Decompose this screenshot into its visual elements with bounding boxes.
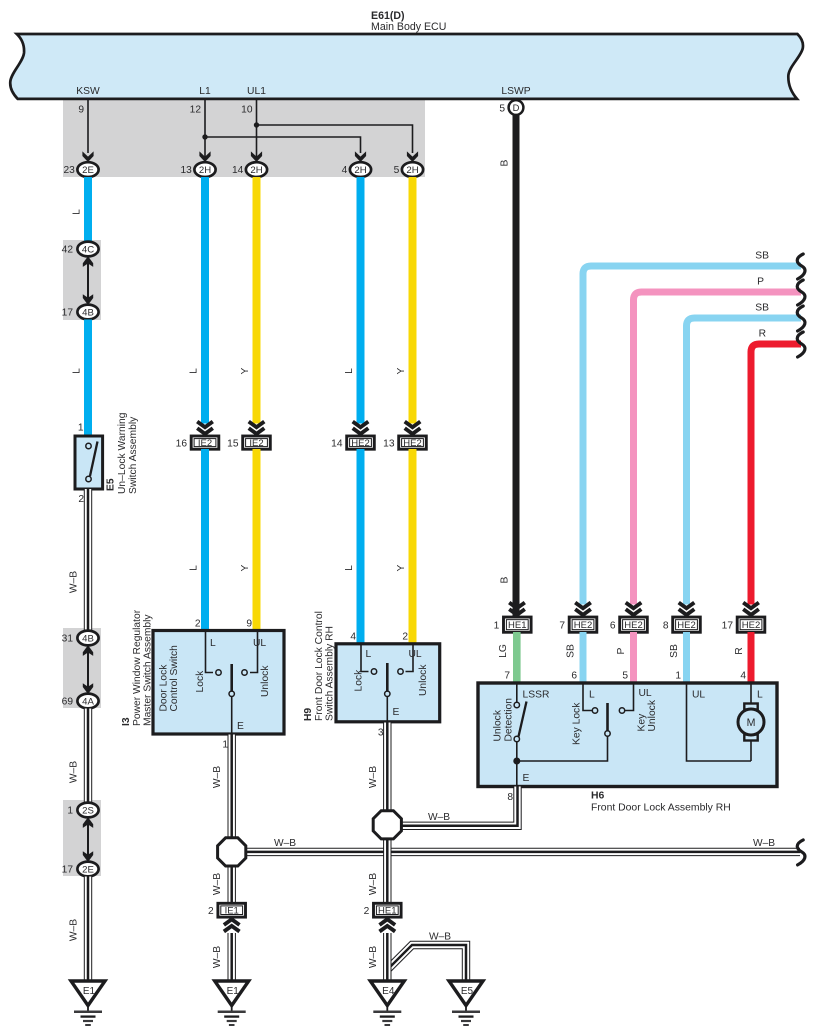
wire R red to 17 HE2 bbox=[734, 329, 801, 682]
svg-text:4B: 4B bbox=[82, 633, 94, 644]
double arrow 4B to 4A bbox=[83, 645, 93, 694]
svg-text:12: 12 bbox=[190, 105, 202, 116]
svg-text:6: 6 bbox=[571, 671, 577, 682]
junction octagon J2 bbox=[373, 811, 401, 839]
junction octagon J1 bbox=[218, 838, 246, 866]
svg-text:B: B bbox=[500, 159, 511, 166]
H9 Front Door Lock Control Switch Assembly RH box bbox=[303, 611, 440, 722]
svg-text:2: 2 bbox=[402, 632, 408, 643]
svg-text:4: 4 bbox=[350, 632, 356, 643]
svg-text:W–B: W–B bbox=[212, 766, 223, 788]
connector 14 2H bbox=[232, 162, 267, 177]
svg-text:IE1: IE1 bbox=[225, 906, 239, 917]
wire Y yellow 14 2H to 15 IE2 bbox=[240, 177, 257, 424]
connector 15 IE2 bbox=[227, 422, 270, 450]
svg-text:HE2: HE2 bbox=[742, 620, 760, 631]
svg-text:4: 4 bbox=[740, 671, 746, 682]
svg-text:UL: UL bbox=[409, 649, 422, 660]
svg-text:E: E bbox=[393, 707, 400, 718]
svg-text:2: 2 bbox=[195, 619, 201, 630]
connector 17 4B bbox=[62, 305, 99, 320]
wire L blue 4 2H to 14 HE2 bbox=[344, 177, 361, 424]
svg-text:10: 10 bbox=[241, 105, 253, 116]
svg-text:16: 16 bbox=[176, 438, 188, 449]
svg-text:L: L bbox=[344, 368, 355, 374]
svg-text:4C: 4C bbox=[82, 244, 94, 255]
svg-text:Lock: Lock bbox=[195, 670, 206, 693]
svg-text:13: 13 bbox=[180, 165, 192, 176]
svg-text:L: L bbox=[72, 368, 83, 374]
svg-text:E: E bbox=[237, 721, 244, 732]
gray harness shade region top bbox=[63, 97, 425, 177]
break symbol P bbox=[797, 280, 805, 305]
svg-text:W–B: W–B bbox=[368, 873, 379, 895]
svg-text:17: 17 bbox=[62, 308, 74, 319]
wire SB skyblue to 7 HE2 bbox=[566, 251, 802, 682]
wire SB HE2 to H6 pin 6 bbox=[580, 632, 587, 684]
svg-text:IE2: IE2 bbox=[198, 438, 212, 449]
svg-text:P: P bbox=[757, 277, 764, 288]
svg-text:L: L bbox=[189, 565, 200, 571]
svg-text:W–B: W–B bbox=[69, 571, 80, 593]
connector 16 IE2 bbox=[176, 422, 219, 450]
svg-text:1: 1 bbox=[78, 423, 84, 434]
wire branch UL1 to 5 2H bbox=[254, 122, 418, 162]
svg-text:Switch Assembly: Switch Assembly bbox=[128, 416, 139, 494]
svg-text:Unlock: Unlock bbox=[493, 709, 504, 741]
svg-text:UL: UL bbox=[639, 688, 652, 699]
svg-text:L: L bbox=[210, 638, 216, 649]
svg-text:2H: 2H bbox=[250, 165, 262, 176]
svg-text:4: 4 bbox=[342, 165, 348, 176]
svg-text:Key Lock: Key Lock bbox=[572, 702, 583, 745]
svg-text:M: M bbox=[747, 717, 756, 729]
svg-text:R: R bbox=[759, 329, 766, 340]
double arrow 4C to 4B bbox=[83, 256, 93, 305]
I3 Power Window Regulator Master Switch Assembly box bbox=[121, 609, 284, 734]
wire L blue 16 IE2 to I3 pin 2 bbox=[189, 449, 206, 632]
svg-text:Main Body ECU: Main Body ECU bbox=[371, 21, 446, 33]
svg-text:Switch Assembly RH: Switch Assembly RH bbox=[325, 626, 336, 721]
svg-text:W–B: W–B bbox=[274, 838, 296, 849]
double arrow 2S to 2E bbox=[83, 817, 93, 862]
svg-text:W–B: W–B bbox=[69, 919, 80, 941]
svg-text:1: 1 bbox=[494, 620, 500, 631]
svg-text:4B: 4B bbox=[82, 307, 94, 318]
svg-text:LSWP: LSWP bbox=[501, 86, 530, 97]
connector 13 2H bbox=[180, 162, 215, 177]
svg-text:Y: Y bbox=[240, 367, 251, 374]
svg-text:UL1: UL1 bbox=[247, 86, 266, 97]
svg-text:1: 1 bbox=[675, 671, 681, 682]
svg-text:Master Switch Assembly: Master Switch Assembly bbox=[143, 614, 154, 726]
wire UL1 pin 10 stub bbox=[241, 99, 262, 162]
wire KSW pin 9 stub bbox=[78, 99, 93, 162]
svg-text:L: L bbox=[189, 368, 200, 374]
connector 2 IE1 bbox=[208, 903, 245, 931]
svg-text:23: 23 bbox=[63, 165, 75, 176]
svg-text:Un–Lock Warning: Un–Lock Warning bbox=[117, 412, 128, 494]
svg-text:LG: LG bbox=[498, 644, 509, 658]
break symbol R bbox=[797, 332, 805, 357]
wire W-B I3 E to IE1 bbox=[212, 735, 232, 904]
connector 42 4C bbox=[62, 242, 99, 257]
connector 5 2H bbox=[394, 162, 423, 177]
svg-text:P: P bbox=[616, 647, 627, 654]
svg-text:E5: E5 bbox=[461, 986, 474, 997]
wire P HE2 to H6 pin 5 bbox=[630, 632, 637, 684]
connector 2 HE1 bbox=[364, 903, 401, 931]
wire W-B IE1 to ground E1 bbox=[212, 933, 232, 981]
H6 unlock detection switch LSSR bbox=[493, 685, 550, 786]
svg-text:L: L bbox=[366, 649, 372, 660]
svg-text:L1: L1 bbox=[199, 86, 211, 97]
svg-text:Detection: Detection bbox=[504, 698, 515, 742]
wire W-B HE1 to ground E4 bbox=[368, 933, 387, 981]
wire L blue KSW oval to 4C bbox=[72, 177, 89, 242]
svg-text:HE1: HE1 bbox=[508, 620, 526, 631]
break symbol SB top bbox=[797, 254, 805, 279]
wire L blue 14 HE2 to H9 pin 4 bbox=[344, 449, 361, 645]
svg-text:W–B: W–B bbox=[753, 838, 775, 849]
svg-text:4A: 4A bbox=[82, 696, 94, 707]
svg-text:HE2: HE2 bbox=[574, 620, 592, 631]
svg-text:HE2: HE2 bbox=[351, 438, 369, 449]
svg-text:Door Lock: Door Lock bbox=[159, 664, 170, 712]
svg-text:2E: 2E bbox=[82, 165, 94, 176]
svg-text:8: 8 bbox=[507, 792, 513, 803]
svg-text:Unlock: Unlock bbox=[647, 699, 658, 731]
svg-text:9: 9 bbox=[78, 105, 84, 116]
svg-text:W–B: W–B bbox=[212, 873, 223, 895]
svg-text:5: 5 bbox=[499, 104, 505, 115]
svg-text:L: L bbox=[757, 690, 763, 701]
wire SB skyblue to 8 HE2 bbox=[669, 303, 801, 682]
connector 4 2H bbox=[342, 162, 371, 177]
svg-text:1: 1 bbox=[222, 740, 228, 751]
svg-text:E1: E1 bbox=[227, 986, 240, 997]
svg-text:14: 14 bbox=[331, 438, 343, 449]
connector 17 HE2 bbox=[722, 603, 765, 633]
wire W-B 2E to ground E1 bbox=[69, 877, 89, 982]
svg-text:W–B: W–B bbox=[428, 812, 450, 823]
svg-text:Front Door Lock Control: Front Door Lock Control bbox=[314, 611, 325, 721]
svg-text:L: L bbox=[344, 565, 355, 571]
wire Y yellow 15 IE2 to I3 pin 9 bbox=[240, 449, 257, 632]
svg-text:H9: H9 bbox=[303, 708, 314, 721]
connector 6 HE2 bbox=[610, 603, 647, 633]
wire branch L1 to 4 2H bbox=[202, 134, 366, 162]
E5 Un-Lock Warning Switch Assembly box bbox=[75, 412, 139, 505]
svg-text:Y: Y bbox=[396, 564, 407, 571]
svg-text:8: 8 bbox=[663, 620, 669, 631]
svg-text:1: 1 bbox=[67, 806, 73, 817]
svg-text:Unlock: Unlock bbox=[418, 664, 429, 696]
wire L1 pin 12 stub bbox=[190, 99, 211, 162]
E5 switch contacts bbox=[86, 442, 98, 482]
I3 door lock control switch contacts bbox=[195, 632, 271, 733]
connector 8 HE2 bbox=[663, 603, 700, 633]
gray shade connector 4B-4A bbox=[63, 628, 101, 708]
break symbol SB lower bbox=[797, 306, 805, 331]
wire B black LSWP to 1 HE1 bbox=[500, 115, 517, 619]
svg-text:D: D bbox=[513, 102, 520, 113]
svg-text:SB: SB bbox=[566, 644, 577, 658]
svg-text:2: 2 bbox=[78, 494, 84, 505]
gray shade connector 4C-4B bbox=[63, 240, 101, 320]
svg-text:15: 15 bbox=[227, 438, 239, 449]
svg-text:5: 5 bbox=[622, 671, 628, 682]
svg-text:2S: 2S bbox=[82, 805, 94, 816]
svg-text:E: E bbox=[523, 773, 530, 784]
connector 31 4B bbox=[62, 631, 99, 646]
H6 Front Door Lock Assembly RH box bbox=[478, 683, 777, 814]
wire Y yellow 13 HE2 to H9 pin 2 bbox=[396, 449, 413, 645]
svg-text:LSSR: LSSR bbox=[523, 690, 550, 701]
svg-text:Y: Y bbox=[240, 564, 251, 571]
connector 5 D (LSWP pin) bbox=[499, 100, 523, 115]
svg-text:Front Door Lock Assembly RH: Front Door Lock Assembly RH bbox=[591, 803, 731, 814]
wire SB HE2 to H6 pin 1 bbox=[683, 632, 690, 684]
svg-text:W–B: W–B bbox=[69, 761, 80, 783]
svg-text:Lock: Lock bbox=[354, 669, 365, 692]
wire W-B E5 to 4B bbox=[69, 489, 89, 630]
wire W-B H9 E to HE1 bbox=[368, 723, 387, 904]
wire P pink to 6 HE2 bbox=[616, 277, 801, 682]
svg-text:W–B: W–B bbox=[368, 946, 379, 968]
svg-text:UL: UL bbox=[253, 638, 266, 649]
svg-text:I3: I3 bbox=[121, 717, 132, 726]
wire L blue 13 2H to 16 IE2 bbox=[189, 177, 206, 424]
wire W-B branch to ground E5 bbox=[388, 932, 466, 982]
break symbol W-B right bbox=[797, 840, 805, 865]
svg-text:HE2: HE2 bbox=[624, 620, 642, 631]
svg-text:7: 7 bbox=[504, 671, 510, 682]
svg-text:HE2: HE2 bbox=[677, 620, 695, 631]
svg-text:W–B: W–B bbox=[212, 946, 223, 968]
svg-text:E1: E1 bbox=[83, 986, 96, 997]
svg-text:R: R bbox=[734, 647, 745, 654]
connector 23 2E bbox=[63, 162, 98, 177]
svg-text:L: L bbox=[72, 209, 83, 215]
connector 17 2E bbox=[62, 862, 99, 877]
H9 switch contacts bbox=[354, 645, 430, 721]
connector 1 2S bbox=[67, 803, 98, 818]
svg-text:13: 13 bbox=[383, 438, 395, 449]
svg-text:17: 17 bbox=[722, 620, 734, 631]
svg-text:W–B: W–B bbox=[368, 766, 379, 788]
wire W-B H6 pin 8 to junction bbox=[399, 787, 518, 826]
wire Y yellow 5 2H to 13 HE2 bbox=[396, 177, 413, 424]
wire R HE2 to H6 pin 4 bbox=[748, 632, 755, 684]
connector 14 HE2 bbox=[331, 422, 374, 450]
svg-text:IE2: IE2 bbox=[249, 438, 263, 449]
gray shade connector 2S-2E bbox=[63, 800, 101, 876]
svg-text:SB: SB bbox=[755, 303, 769, 314]
svg-text:Unlock: Unlock bbox=[260, 665, 271, 697]
svg-text:Key: Key bbox=[637, 713, 648, 732]
ground E4 bbox=[370, 981, 404, 1025]
svg-text:SB: SB bbox=[755, 251, 769, 262]
svg-text:69: 69 bbox=[62, 697, 74, 708]
svg-text:E5: E5 bbox=[106, 478, 117, 491]
wire W-B long horizontal to right break bbox=[244, 838, 800, 852]
svg-text:Y: Y bbox=[396, 367, 407, 374]
svg-text:W–B: W–B bbox=[429, 932, 451, 943]
connector 13 HE2 bbox=[383, 422, 426, 450]
svg-text:7: 7 bbox=[559, 620, 565, 631]
connector 1 HE1 bbox=[494, 603, 531, 633]
svg-text:HE2: HE2 bbox=[403, 438, 421, 449]
H6 key lock / key unlock switch bbox=[517, 685, 658, 762]
svg-text:31: 31 bbox=[62, 634, 74, 645]
svg-text:HE1: HE1 bbox=[378, 906, 396, 917]
wire LG green HE1 to H6 pin 7 bbox=[498, 632, 517, 684]
svg-text:L: L bbox=[589, 690, 595, 701]
ground E5 bbox=[449, 981, 483, 1025]
svg-text:14: 14 bbox=[232, 165, 244, 176]
svg-text:5: 5 bbox=[394, 165, 400, 176]
svg-text:H6: H6 bbox=[591, 791, 605, 802]
svg-text:B: B bbox=[500, 576, 511, 583]
ground E1 left bbox=[71, 981, 105, 1025]
svg-text:2H: 2H bbox=[354, 165, 366, 176]
svg-text:42: 42 bbox=[62, 245, 74, 256]
svg-text:UL: UL bbox=[692, 690, 705, 701]
svg-text:2E: 2E bbox=[82, 864, 94, 875]
svg-text:Power Window Regulator: Power Window Regulator bbox=[132, 609, 143, 726]
connector 69 4A bbox=[62, 694, 99, 709]
wire W-B 4A to 2S bbox=[69, 709, 89, 804]
ground E1 center bbox=[215, 981, 249, 1025]
H6 unlock UL wire pin 1 bbox=[687, 685, 752, 762]
svg-text:2H: 2H bbox=[199, 165, 211, 176]
svg-text:Control Switch: Control Switch bbox=[169, 645, 180, 712]
svg-text:17: 17 bbox=[62, 865, 74, 876]
svg-text:KSW: KSW bbox=[76, 86, 100, 97]
wire L blue 4B to E5 bbox=[72, 320, 89, 438]
svg-text:SB: SB bbox=[669, 644, 680, 658]
svg-text:9: 9 bbox=[246, 619, 252, 630]
svg-text:2: 2 bbox=[364, 906, 370, 917]
svg-text:E4: E4 bbox=[382, 986, 395, 997]
svg-text:2H: 2H bbox=[406, 165, 418, 176]
Main Body ECU E61(D) band bbox=[10, 10, 803, 99]
svg-text:2: 2 bbox=[208, 906, 214, 917]
svg-text:3: 3 bbox=[378, 728, 384, 739]
svg-text:6: 6 bbox=[610, 620, 616, 631]
H6 motor M bbox=[738, 685, 764, 762]
connector 7 HE2 bbox=[559, 603, 596, 633]
